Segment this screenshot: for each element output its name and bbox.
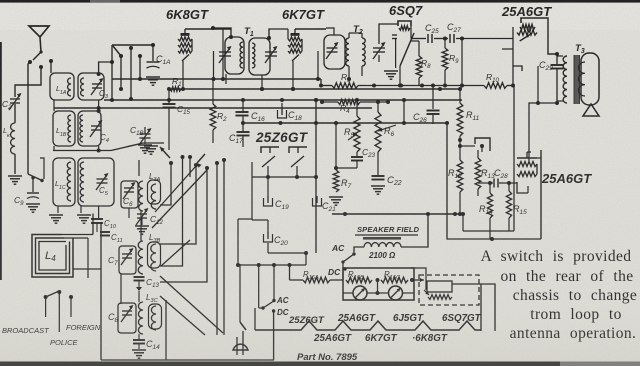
wire: [377, 280, 379, 293]
loop switch blade: [28, 174, 42, 181]
wire: [513, 86, 515, 232]
tube 6K8GT cathode: [182, 55, 189, 62]
coil L1B secondary: [80, 115, 83, 142]
power switch: [240, 322, 246, 330]
resistor R4: [322, 101, 338, 103]
capacitor C23: [356, 152, 358, 156]
wire: [462, 214, 464, 231]
coil L3C right: [151, 306, 156, 330]
resistor R11: [459, 89, 461, 103]
tube 6J5GT symbol: [475, 138, 490, 151]
ground: [138, 144, 152, 146]
capacitor T2 trim 2: [373, 47, 385, 49]
coil T3 secondary: [581, 53, 599, 105]
wire: [361, 66, 363, 76]
tube 25A6GT cathode blade: [520, 35, 530, 42]
wire: [289, 265, 291, 280]
wire: [238, 218, 252, 220]
ground: [132, 349, 146, 351]
coil L3A: [139, 181, 143, 211]
tube 25A6GT top cap: [521, 18, 531, 23]
capacitor C11: [96, 223, 98, 230]
wire: [112, 44, 153, 46]
wire right loop: [472, 284, 495, 331]
wire switch drop 4: [160, 165, 196, 244]
coil L1A primary: [68, 78, 71, 96]
wire grid in: [513, 39, 520, 41]
wire plate to T3: [531, 18, 557, 54]
paper texture: [0, 0, 1, 1]
wire rotor diagonal: [155, 166, 196, 212]
wire: [225, 74, 227, 84]
bus heaters-: [54, 107, 372, 109]
wire switch drop 6: [216, 163, 218, 335]
wire: [258, 280, 260, 308]
resistor R15: [508, 183, 510, 191]
wire rotor diagonal: [161, 240, 190, 266]
wire screen drop: [317, 51, 319, 79]
box L1C primary: [53, 158, 75, 206]
coil T3 primary: [563, 56, 567, 103]
ground: [329, 196, 343, 198]
bus: [169, 88, 460, 90]
capacitor C6: [124, 187, 134, 189]
antenna: [29, 26, 49, 37]
coil L1C primary: [67, 162, 71, 201]
top border strip: [0, 0, 640, 3]
wire: [14, 104, 16, 123]
wire rotor diagonal: [152, 170, 207, 228]
bus B-: [104, 99, 462, 101]
wire: [354, 247, 364, 252]
capacitor C20: [267, 232, 269, 239]
ground: [26, 203, 40, 205]
box C7: [119, 246, 136, 274]
tube 25A6GT grid resistor: [520, 24, 535, 29]
bus: [332, 213, 463, 215]
pilot lamp box: [343, 268, 414, 300]
tube 25Z6GT diode 1: [261, 147, 279, 153]
wire switch drop 2: [160, 157, 183, 266]
pilot lamp 1: [353, 286, 367, 300]
capacitor C12: [137, 213, 147, 215]
wire: [459, 136, 461, 160]
ground: [8, 175, 22, 177]
tube 6K7GT grid resistor: [288, 37, 302, 41]
wire switch drop 1: [160, 163, 171, 205]
transformer T3 core: [574, 55, 580, 104]
junction dots on buses: [241, 98, 245, 102]
wire grid feed: [529, 103, 557, 161]
capacitor T2 trim 1: [327, 47, 338, 49]
box T1 secondary: [249, 38, 270, 75]
wire loop switch contact: [40, 158, 44, 179]
resistor R6: [377, 102, 379, 112]
capacitor C17: [237, 131, 250, 133]
wire routing lower: [160, 276, 223, 333]
wire: [50, 61, 52, 73]
coil T2 primary: [346, 38, 349, 66]
wire: [452, 283, 472, 285]
capacitor C27: [449, 34, 451, 43]
wire plate top: [185, 28, 231, 30]
wire switch drop 3: [189, 157, 191, 177]
coil L1A secondary: [81, 78, 84, 96]
capacitor C1B: [144, 127, 146, 134]
wire switch drop 5: [160, 168, 207, 282]
switch blade 1: [160, 147, 170, 158]
switch blade 2: [197, 154, 205, 163]
wire box: [540, 150, 542, 239]
wire: [96, 230, 98, 232]
wire: [411, 38, 426, 40]
coil L3B right: [151, 244, 156, 271]
ground: [371, 185, 385, 187]
resistor R9: [444, 39, 446, 49]
ground: [146, 76, 160, 78]
wire: [120, 56, 122, 89]
capacitor C9: [32, 178, 34, 192]
capacitor C28: [477, 189, 479, 196]
wire: [315, 100, 317, 253]
resistor R7: [335, 123, 337, 170]
wire arrow to tone box: [414, 279, 424, 281]
wire: [238, 264, 306, 266]
tube 6SQ7 grid resistor: [399, 26, 410, 30]
wire bottom run: [101, 359, 274, 361]
capacitor C4: [91, 125, 101, 127]
bus AVC: [112, 78, 321, 80]
wire screen drop: [213, 51, 215, 79]
capacitor C18: [281, 108, 283, 115]
tone control dashed box: [419, 275, 479, 305]
tube 6K8GT grid resistor: [178, 37, 192, 41]
heater string wire: [255, 321, 481, 330]
wire: [272, 296, 274, 305]
ground osc: [144, 145, 158, 147]
wire plate top: [295, 28, 326, 30]
capacitor C26: [403, 100, 405, 124]
wire cathode bus: [267, 166, 269, 177]
capacitor C5: [97, 178, 108, 180]
wire: [557, 55, 563, 57]
tube 6K7GT cathode: [292, 55, 299, 62]
wire switch drop 7: [223, 160, 225, 335]
wire: [168, 108, 170, 151]
resistor R13: [477, 150, 479, 158]
wire grid stub: [502, 48, 513, 50]
resistor R14: [489, 183, 491, 193]
wire T1 to 6K8GT plate: [213, 28, 231, 37]
wire T2 to 6SQ7 grid: [379, 24, 398, 44]
capacitor C21: [316, 196, 318, 203]
capacitor C8: [122, 310, 132, 312]
wire B minus return: [447, 124, 541, 239]
coil T1 secondary: [252, 43, 255, 68]
tube 6SQ7 top cap: [398, 21, 411, 26]
switch: [113, 46, 121, 56]
coil L1C secondary: [80, 162, 84, 202]
switch contact dots: [169, 161, 173, 165]
antenna switch: [39, 50, 42, 53]
wire loop leads: [62, 234, 93, 236]
box L1C secondary: [78, 158, 114, 206]
capacitor C10: [98, 206, 100, 218]
coil L3B: [138, 241, 143, 274]
box C8: [118, 303, 136, 333]
wire antenna to C2: [15, 67, 41, 97]
speaker field coil: [363, 237, 401, 240]
tube 6SQ7 blade: [400, 33, 414, 66]
tube 25A6GT 2 plate: [517, 157, 537, 159]
wire: [111, 45, 113, 100]
capacitor T1 trim 2: [265, 51, 277, 53]
box L1B primary: [53, 111, 75, 146]
wire: [411, 268, 426, 290]
coil T2 secondary: [362, 38, 365, 66]
box L1A primary: [50, 73, 74, 100]
ground: [77, 214, 91, 216]
wire: [14, 154, 16, 174]
capacitor T1 trim 1: [219, 51, 231, 53]
resistor R1: [170, 87, 181, 91]
wire: [53, 146, 55, 150]
capacitor C15: [163, 103, 176, 105]
wire: [242, 116, 244, 132]
wire: [410, 26, 412, 39]
coil T1 primary: [240, 42, 243, 68]
wire: [80, 206, 82, 213]
wire: [267, 243, 269, 253]
box T1 primary: [225, 37, 244, 74]
speaker cone symbol: [583, 104, 599, 116]
box L1B secondary: [78, 111, 101, 146]
capacitor C19: [267, 177, 269, 196]
capacitor C14: [133, 339, 145, 341]
capacitor C13: [134, 276, 145, 278]
capacitor C22: [377, 152, 379, 175]
resistor R12: [457, 160, 463, 192]
wire: [243, 122, 447, 124]
resistor R16A: [290, 279, 304, 281]
wire: [251, 162, 253, 220]
wire: [168, 89, 170, 104]
ground: [384, 70, 398, 72]
wire: [242, 100, 244, 113]
wire: [130, 48, 132, 99]
wire antenna sw down: [28, 62, 30, 174]
capacitor C3: [92, 83, 102, 85]
tube 6K8GT top cap: [181, 33, 190, 36]
loop antenna L4: [32, 235, 73, 278]
box T2 primary: [324, 35, 345, 69]
tube 6SQ7 diode plates: [392, 34, 397, 36]
box L1A secondary: [78, 73, 104, 100]
wire: [120, 274, 122, 304]
wire: [128, 208, 130, 218]
band switch: [44, 295, 48, 299]
wire plate drop: [222, 29, 224, 79]
tube 25A6GT 2 grid resistor: [517, 162, 537, 167]
capacitor C29: [556, 54, 558, 64]
tube 25A6GT 2 cathode: [517, 182, 528, 193]
left border line: [0, 42, 2, 280]
coil L1B primary: [68, 115, 71, 142]
box C6: [121, 181, 138, 208]
pilot lamp 2: [389, 286, 403, 300]
resistor R10: [484, 83, 507, 89]
tube 6K7GT top cap: [291, 33, 300, 36]
resistor R2: [212, 79, 214, 104]
coil L3C: [138, 302, 143, 334]
capacitor C25: [427, 34, 429, 43]
tone control pot: [427, 281, 452, 292]
capacitor C1A: [152, 45, 154, 61]
capacitor C16: [236, 111, 249, 113]
wire: [139, 56, 141, 79]
ground: [49, 214, 63, 216]
resistor R16B: [346, 277, 372, 283]
ground: [135, 225, 149, 227]
power plug: [233, 344, 248, 350]
bottom border strip: [0, 362, 640, 366]
wire T1 to 6K7GT grid: [269, 29, 288, 38]
coil L1K: [11, 123, 15, 154]
capacitor C7: [122, 253, 132, 255]
resistor R5: [356, 100, 358, 116]
resistor R8: [418, 41, 420, 56]
tube 25Z6GT diode 2: [289, 147, 307, 153]
coil L3A right: [151, 184, 156, 209]
wire: [326, 28, 334, 35]
capacitor C2: [10, 98, 20, 100]
resistor R3: [321, 85, 332, 87]
wire antenna feed to L1A: [99, 62, 112, 74]
wire cathode: [512, 27, 514, 86]
wire AC riser: [273, 265, 275, 301]
wire grid to output tube: [456, 38, 513, 40]
resistor R16C: [381, 277, 408, 283]
